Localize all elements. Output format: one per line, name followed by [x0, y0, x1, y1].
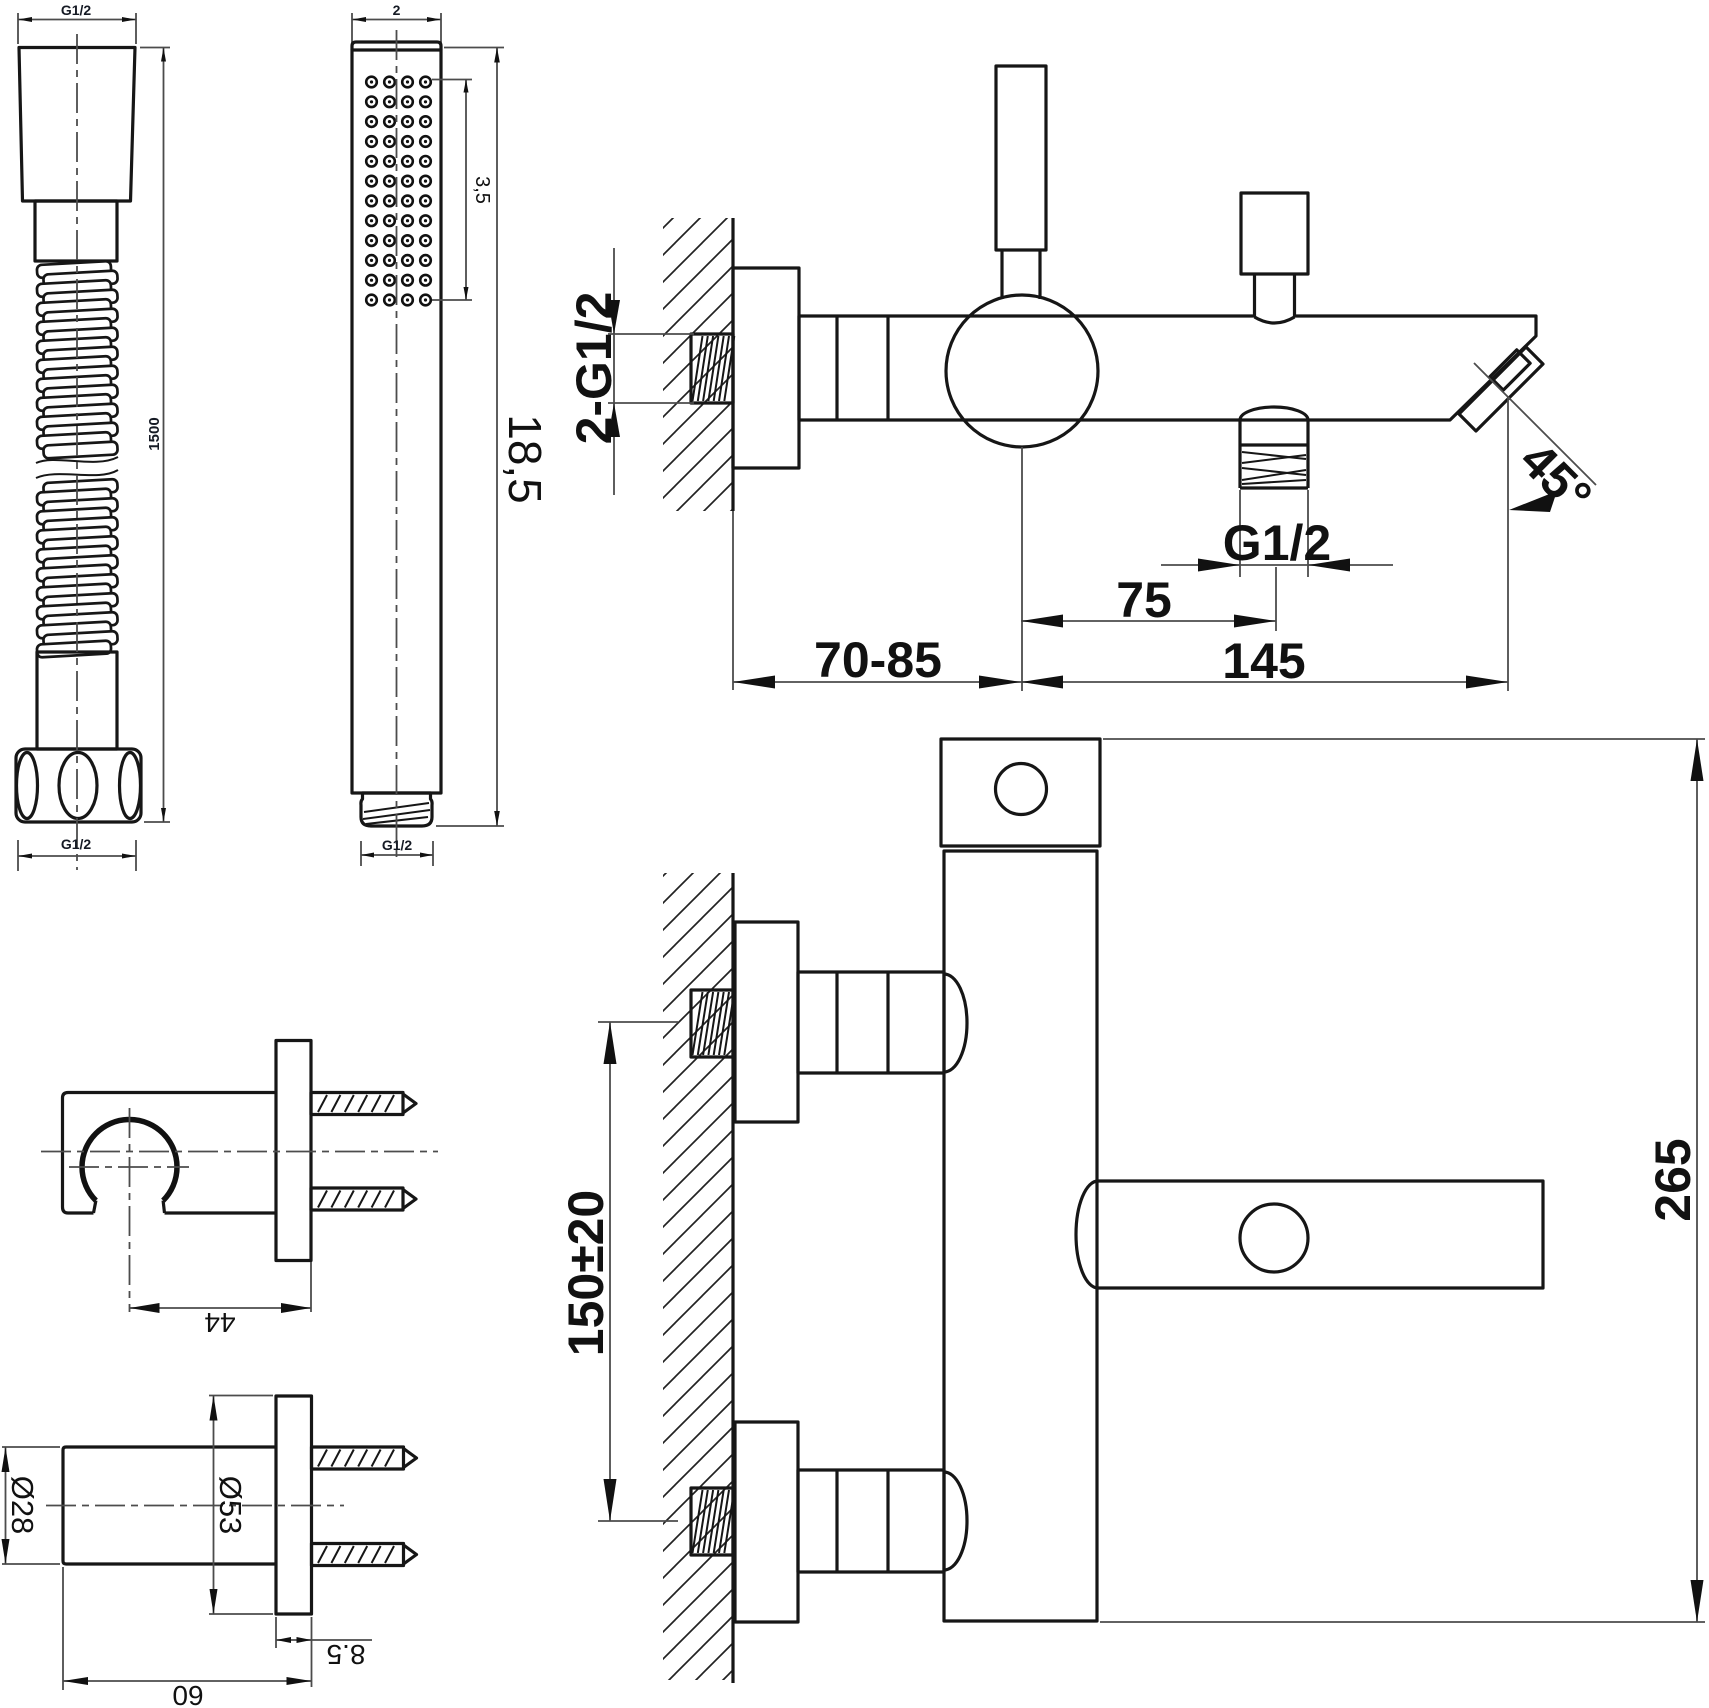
wand bottom dimension G1/2: [361, 837, 433, 866]
svg-text:70-85: 70-85: [814, 632, 942, 688]
svg-text:Ø28: Ø28: [5, 1476, 40, 1535]
bracket top-view screw lower: [312, 1544, 417, 1566]
dimension 150 plus-minus 20: [558, 1022, 678, 1521]
svg-text:2: 2: [393, 2, 401, 18]
svg-text:44: 44: [204, 1307, 235, 1338]
dimension 45 degrees: [1474, 363, 1603, 691]
hose ribbed section lower: [37, 479, 118, 658]
dimension G1/2 (outlet): [1161, 490, 1393, 577]
spout aerator outer: [1459, 347, 1543, 431]
handle lever grip: [996, 66, 1046, 250]
spout aerator inner: [1490, 350, 1530, 390]
bracket hook centerline horizontal: [69, 1166, 189, 1168]
dimension 8.5: [276, 1617, 372, 1687]
hose top conical ferrule: [19, 48, 135, 202]
dimension 44: [130, 1262, 312, 1338]
svg-text:75: 75: [1116, 572, 1172, 628]
bar segment line 1: [835, 316, 838, 420]
wand top dimension 2: [352, 2, 441, 44]
bracket hook centerline vertical: [129, 1108, 131, 1312]
svg-text:60: 60: [172, 1680, 203, 1708]
svg-text:3,5: 3,5: [471, 176, 493, 204]
wall face line (front view): [731, 873, 734, 1683]
wand top cap: [352, 42, 441, 50]
wand centerline: [396, 30, 398, 863]
dimension 60: [63, 1567, 312, 1708]
bracket C-hook: [82, 1120, 177, 1201]
diverter stem notch: [1256, 313, 1293, 319]
wand threaded tip: [361, 793, 432, 826]
upper connection assembly: [735, 922, 967, 1122]
svg-text:G1/2: G1/2: [61, 2, 92, 18]
hose bottom dimension G1/2: [18, 836, 136, 871]
hose lower neck: [37, 652, 117, 749]
hose nut knurl ellipses: [17, 753, 38, 819]
svg-text:265: 265: [1645, 1138, 1701, 1221]
svg-text:G1/2: G1/2: [1223, 515, 1331, 571]
valve body circle: [946, 295, 1098, 447]
bracket top-view centerline: [46, 1505, 344, 1507]
diverter stem: [1253, 274, 1256, 317]
hose ribbed section upper: [37, 261, 118, 459]
wand dimension 18,5: [436, 48, 551, 827]
svg-text:2-G1/2: 2-G1/2: [566, 292, 622, 445]
bracket wall plate: [276, 1041, 311, 1261]
wand dimension 3,5: [432, 80, 493, 301]
bracket top-view screw upper: [312, 1447, 417, 1469]
upper wall nipple (front): [691, 990, 734, 1057]
wall face line: [731, 218, 734, 511]
dimension 2-G1/2: [566, 248, 694, 495]
svg-text:1500: 1500: [146, 417, 163, 450]
dimension 70-85 and 145: [733, 632, 1508, 689]
threaded wall nipple (side view): [691, 334, 734, 403]
hose outlet nut below bar: [1240, 407, 1308, 488]
circle center extension: [1021, 447, 1023, 691]
lower wall nipple (front): [691, 1488, 734, 1555]
svg-text:150±20: 150±20: [558, 1190, 614, 1356]
hose upper neck: [35, 201, 117, 261]
bracket top-view body: [63, 1447, 276, 1564]
wall face extension: [732, 511, 734, 690]
bracket screw lower: [311, 1188, 416, 1210]
lower connection assembly: [735, 1422, 967, 1622]
hose length dimension 1500: [140, 48, 170, 823]
svg-text:G1/2: G1/2: [61, 836, 92, 852]
wall hatching (front view): [663, 873, 733, 1680]
mixer top cap: [941, 739, 1100, 846]
dimension 265: [1100, 739, 1705, 1622]
svg-text:18,5: 18,5: [499, 414, 551, 504]
handle bar (front): [1076, 1181, 1543, 1288]
wand body: [352, 50, 441, 793]
bracket screw upper: [311, 1093, 416, 1115]
hose end nut: [16, 749, 141, 822]
wand spray nozzle dots: [366, 77, 431, 306]
wall escutcheon (side view): [733, 268, 799, 468]
dimension diameter 53: [209, 1396, 273, 1615]
wall hatching (side view): [663, 218, 733, 511]
dimension diameter 28: [2, 1447, 61, 1564]
bracket main centerline: [41, 1151, 438, 1153]
handle stem: [1000, 250, 1003, 299]
hose break squiggle: [36, 457, 118, 463]
bracket body: [63, 1093, 277, 1214]
svg-text:Ø53: Ø53: [213, 1476, 248, 1535]
dimension 75: [1021, 567, 1276, 631]
mixer body bar with 45-degree spout cut: [799, 316, 1536, 420]
cap screw circle: [996, 764, 1047, 815]
mixer body (front): [944, 851, 1097, 1621]
svg-text:145: 145: [1222, 633, 1305, 689]
svg-text:8.5: 8.5: [327, 1639, 366, 1670]
diverter knob: [1241, 193, 1308, 274]
hose centerline: [76, 34, 78, 870]
hose top dimension G1/2: [18, 2, 136, 44]
bar segment line 2: [886, 316, 889, 420]
bracket top-view wall plate: [276, 1396, 312, 1614]
handle bar circle: [1240, 1204, 1308, 1272]
svg-text:G1/2: G1/2: [382, 837, 413, 853]
